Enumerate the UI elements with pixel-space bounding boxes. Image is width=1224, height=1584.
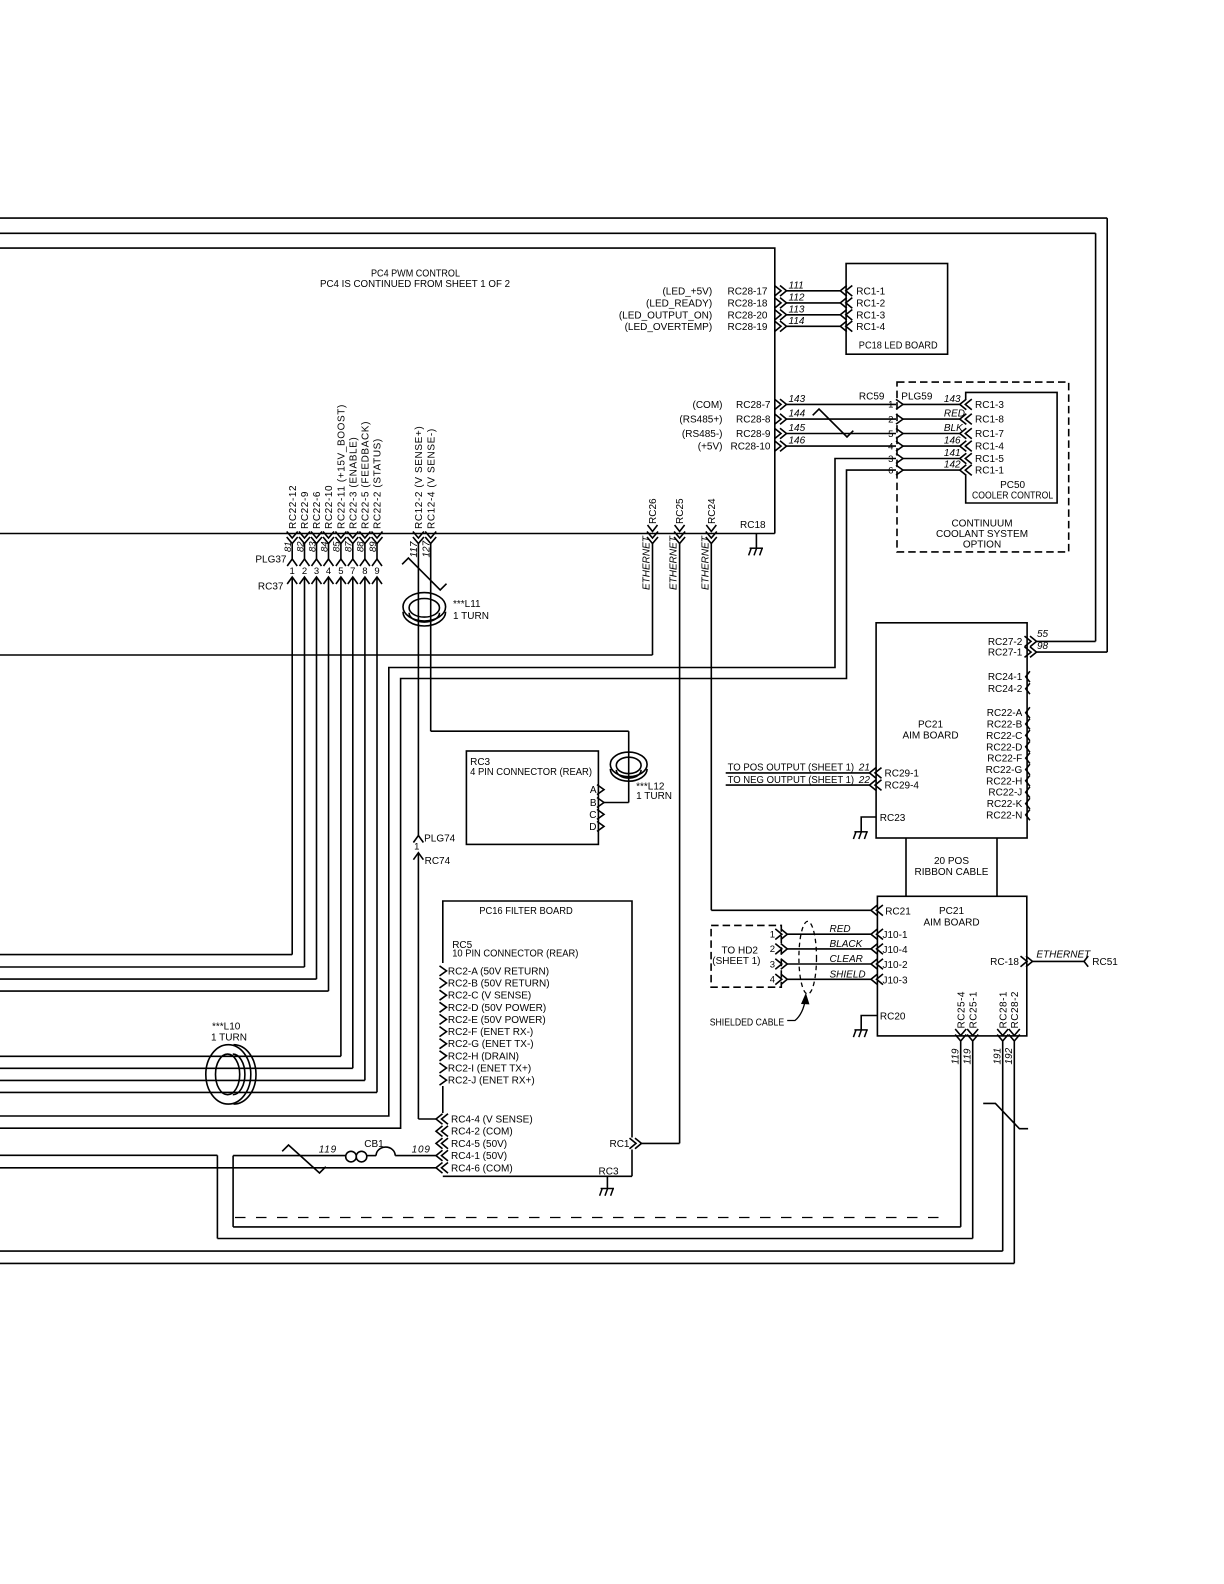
svg-text:RC22-10: RC22-10: [324, 485, 335, 529]
RC3 connector box: [466, 751, 598, 844]
wire 117 to RC4-4: [418, 1118, 436, 1120]
svg-text:B: B: [590, 798, 597, 809]
PC4 PWM control box: [0, 248, 775, 533]
svg-text:CLEAR: CLEAR: [830, 954, 863, 965]
connector pin RC28-20 chevron: [780, 310, 787, 321]
svg-text:146: 146: [789, 436, 806, 447]
wire PLG37 pin 5 vertical: [340, 544, 342, 560]
svg-text:22: 22: [858, 775, 871, 786]
RC37 pin 3 caret: [312, 577, 322, 584]
svg-text:RC59: RC59: [859, 391, 885, 402]
svg-text:SHIELDED CABLE: SHIELDED CABLE: [710, 1017, 785, 1028]
svg-text:109: 109: [412, 1144, 431, 1155]
svg-text:20 POS: 20 POS: [934, 856, 969, 867]
wire CLEAR: [787, 963, 871, 965]
RC2 pin RC2-A (50V RETURN): [440, 966, 447, 976]
wire 145: [787, 433, 897, 435]
wire PLG37 pin 9 vertical: [376, 544, 378, 560]
PC16 box bottom edge: [443, 1175, 632, 1177]
RC2 pin RC2-J (ENET RX+): [440, 1075, 447, 1085]
svg-text:RC22-5 (FEEDBACK): RC22-5 (FEEDBACK): [361, 421, 372, 529]
svg-text:RC1-4: RC1-4: [975, 442, 1004, 453]
wire 127 vertical: [430, 544, 432, 732]
svg-text:RC28-9: RC28-9: [736, 429, 771, 440]
wire to neg output: [726, 784, 870, 786]
svg-text:PC18 LED BOARD: PC18 LED BOARD: [859, 340, 938, 351]
wire RC28-2 vertical: [1013, 1041, 1015, 1263]
wire PLG37 pin 7 vertical: [352, 544, 354, 560]
connector pin RC28-9 chevron: [780, 428, 787, 439]
wire net 55 right vertical: [1095, 233, 1097, 641]
svg-text:119: 119: [319, 1144, 337, 1155]
wire PLG59 pin 3 to RC1-5: [903, 458, 960, 460]
shielded cable arrow: [787, 999, 805, 1021]
wire ETHERNET RC51: [1033, 960, 1085, 962]
svg-text:1: 1: [414, 842, 419, 853]
inductor L12: [610, 752, 647, 777]
svg-text:(LED_READY): (LED_READY): [646, 298, 712, 309]
RC74 caret: [413, 853, 423, 860]
pin RC28-1 chevron: [997, 1035, 1008, 1042]
RC23 ground wire: [861, 817, 876, 832]
svg-text:21: 21: [858, 763, 870, 774]
RC2 pin RC2-D (50V POWER): [440, 1002, 447, 1012]
pin RC29-4 chevron: [870, 780, 877, 791]
wire 119 left segment: [0, 1154, 217, 1156]
RC1 pin chevron: [635, 1138, 642, 1149]
wire PLG59 pin 2 to RC1-8: [903, 418, 960, 420]
wire PLG37 pin 1 vertical: [291, 544, 293, 560]
wire 191 horizontal: [0, 1250, 1003, 1252]
RC4 pin RC4-2 (COM): [436, 1126, 443, 1137]
svg-text:RC22-N: RC22-N: [986, 810, 1022, 821]
svg-text:4 PIN CONNECTOR (REAR): 4 PIN CONNECTOR (REAR): [470, 767, 592, 778]
pin RC26 chevron: [648, 525, 658, 532]
wire RC24 to RC21: [711, 909, 871, 911]
svg-text:RC4-1 (50V): RC4-1 (50V): [451, 1151, 507, 1162]
RC2 pin RC2-I (ENET TX+): [440, 1063, 447, 1073]
wire RC25-1 vertical: [972, 1041, 974, 1239]
svg-text:RC1-1: RC1-1: [975, 466, 1004, 477]
pin RC29-1 chevron: [870, 768, 877, 779]
RC37 pin 1 caret: [287, 577, 297, 584]
svg-text:141: 141: [944, 448, 961, 459]
svg-text:RC2-C (V SENSE): RC2-C (V SENSE): [448, 991, 531, 1002]
wire PLG59 pin 1 to RC1-3: [903, 403, 960, 405]
svg-text:RC22-H: RC22-H: [986, 776, 1022, 787]
svg-text:RC22-9: RC22-9: [300, 491, 311, 529]
PLG59 pin 5 chevron: [896, 429, 903, 439]
svg-text:4: 4: [888, 441, 893, 452]
PLG37 pin 1 caret: [287, 559, 297, 566]
svg-text:AIM BOARD: AIM BOARD: [902, 731, 958, 742]
ground RC18: [750, 547, 763, 549]
svg-text:55: 55: [1037, 629, 1049, 640]
pin RC21 chevron: [871, 905, 878, 916]
svg-text:98: 98: [1037, 641, 1049, 652]
svg-text:RED: RED: [830, 924, 851, 935]
svg-text:RC1-1: RC1-1: [856, 286, 885, 297]
svg-text:(COM): (COM): [693, 400, 723, 411]
svg-text:1 TURN: 1 TURN: [211, 1033, 247, 1044]
wire 192 horizontal: [0, 1262, 1014, 1264]
svg-text:4: 4: [326, 566, 331, 577]
svg-text:145: 145: [789, 423, 806, 434]
svg-text:A: A: [590, 785, 597, 796]
svg-text:1 TURN: 1 TURN: [636, 791, 672, 802]
PLG74 caret: [413, 836, 423, 843]
pin J10-1 chevron: [871, 929, 878, 940]
pin J10-3 chevron: [871, 974, 878, 985]
svg-text:RC28-1: RC28-1: [998, 991, 1009, 1028]
wire RC25 vertical: [679, 544, 681, 1144]
PLG37 pin 8 caret: [360, 559, 370, 566]
svg-text:RC22-J: RC22-J: [988, 788, 1022, 799]
ground RC23: [854, 831, 867, 833]
svg-text:ETHERNET: ETHERNET: [669, 535, 680, 590]
svg-text:OPTION: OPTION: [963, 539, 1001, 550]
RC37 pin 5 caret: [336, 577, 346, 584]
svg-text:5: 5: [338, 566, 343, 577]
wire RC25 to RC1: [640, 1142, 680, 1144]
circuit breaker CB1: [346, 1151, 357, 1162]
svg-text:RC37: RC37: [258, 582, 284, 593]
svg-text:BLACK: BLACK: [830, 939, 864, 950]
RC37 pin 4 caret: [324, 577, 334, 584]
svg-text:J10-3: J10-3: [883, 975, 908, 986]
wire PLG37 pin 4 horizontal: [0, 990, 329, 992]
wire PLG37 pin 7 horizontal: [0, 1067, 353, 1069]
RC2 pin RC2-F (ENET RX-): [440, 1027, 447, 1037]
svg-text:RC22-6: RC22-6: [312, 491, 323, 529]
svg-text:RC1: RC1: [609, 1139, 629, 1150]
PC4 pin RC22-3 (ENABLE) chevron: [347, 537, 358, 544]
PC16 filter board box: [443, 901, 632, 1138]
pin RC24 chevron: [706, 525, 716, 532]
svg-text:ETHERNET: ETHERNET: [642, 535, 653, 590]
svg-text:114: 114: [789, 316, 805, 327]
pin RC-18 chevron: [1026, 956, 1033, 967]
connector pin RC1-3 chevron: [840, 310, 847, 321]
wire PLG59 pin 5 to RC1-7: [903, 433, 960, 435]
wire PLG37 pin 3 horizontal: [0, 978, 317, 980]
svg-text:RC1-4: RC1-4: [856, 322, 885, 333]
wire PLG59 pin 6 net: [0, 470, 896, 1128]
svg-text:RC25: RC25: [675, 498, 686, 524]
connector pin RC28-18 chevron: [780, 298, 787, 309]
pin RC28-2 chevron: [1009, 1035, 1020, 1042]
RC4 pin RC4-4 (V SENSE): [436, 1114, 443, 1125]
wire 109 CB1 to RC4-1: [395, 1155, 436, 1157]
svg-text:1: 1: [290, 566, 295, 577]
PC4 pin RC12-2 chevron: [413, 537, 424, 544]
pin RC27-2 chevron: [1030, 636, 1037, 647]
connector pin RC1-4 chevron: [840, 321, 847, 332]
AIM board 2 box: [877, 896, 1026, 1036]
connector pin RC28-8 chevron: [780, 414, 787, 425]
svg-text:PC16 FILTER BOARD: PC16 FILTER BOARD: [479, 906, 573, 917]
svg-text:RC2-I (ENET TX+): RC2-I (ENET TX+): [448, 1064, 531, 1075]
svg-text:3: 3: [314, 566, 319, 577]
svg-text:ETHERNET: ETHERNET: [1036, 950, 1091, 961]
RC2 pin RC2-C (V SENSE): [440, 990, 447, 1000]
svg-text:1 TURN: 1 TURN: [453, 611, 489, 622]
svg-text:2: 2: [770, 944, 775, 955]
svg-text:RC20: RC20: [880, 1012, 906, 1023]
wire 119 CB1 lower horizontal: [233, 1226, 961, 1228]
svg-text:D: D: [589, 822, 596, 833]
svg-text:RC25-4: RC25-4: [956, 991, 967, 1028]
svg-text:RC1-8: RC1-8: [975, 415, 1004, 426]
svg-text:1: 1: [888, 400, 893, 411]
svg-text:RC26: RC26: [648, 498, 659, 524]
PC4 pin RC22-9 chevron: [299, 537, 310, 544]
PC4 pin RC22-12 chevron: [287, 537, 298, 544]
svg-text:RC2-G (ENET TX-): RC2-G (ENET TX-): [448, 1039, 534, 1050]
svg-text:RC2-F (ENET RX-): RC2-F (ENET RX-): [448, 1027, 533, 1038]
svg-text:RC28-7: RC28-7: [736, 400, 771, 411]
inductor L10: [206, 1045, 251, 1104]
PC4 pin RC22-10 chevron: [323, 537, 334, 544]
RC4 pin RC4-6 (COM): [436, 1163, 443, 1174]
svg-text:RC1-3: RC1-3: [856, 310, 885, 321]
svg-text:PC4 PWM CONTROL: PC4 PWM CONTROL: [371, 269, 460, 280]
wire 112: [787, 302, 841, 304]
RC2 pin RC2-H (DRAIN): [440, 1051, 447, 1061]
RC20 ground wire: [861, 1016, 877, 1030]
pin RC27-1 chevron: [1030, 647, 1037, 658]
svg-text:119: 119: [951, 1048, 962, 1064]
svg-text:143: 143: [944, 394, 961, 405]
ground RC3: [601, 1188, 614, 1190]
svg-text:RC28-2: RC28-2: [1010, 991, 1021, 1028]
cable slash 117/127: [402, 558, 446, 590]
svg-text:10 PIN CONNECTOR (REAR): 10 PIN CONNECTOR (REAR): [452, 949, 578, 960]
connector pin RC28-10 chevron: [780, 441, 787, 452]
wire 117 vertical upper: [417, 544, 419, 836]
wire 146: [787, 445, 897, 447]
svg-text:RC2-J (ENET RX+): RC2-J (ENET RX+): [448, 1076, 535, 1087]
svg-text:PC21: PC21: [939, 906, 964, 917]
svg-text:RC22-K: RC22-K: [987, 799, 1023, 810]
svg-text:111: 111: [789, 280, 804, 291]
svg-text:(SHEET 1): (SHEET 1): [712, 956, 760, 967]
svg-text:113: 113: [789, 304, 805, 315]
connector pin RC1-2 chevron: [840, 298, 847, 309]
svg-text:RC74: RC74: [425, 856, 451, 867]
RC4 pin RC4-1 (50V): [436, 1150, 443, 1161]
wire RC26 vertical: [652, 544, 654, 656]
svg-text:ETHERNET: ETHERNET: [700, 535, 711, 590]
svg-text:3: 3: [770, 959, 775, 970]
svg-text:RC2-B (50V RETURN): RC2-B (50V RETURN): [448, 979, 550, 990]
connector pin RC1-1 chevron: [960, 465, 967, 476]
svg-text:7: 7: [350, 566, 355, 577]
svg-text:4: 4: [770, 975, 775, 986]
svg-text:(RS485+): (RS485+): [679, 415, 722, 426]
PC50 cooler control box: [966, 392, 1057, 503]
pin RC25 chevron: [675, 525, 685, 532]
wire BLACK: [787, 948, 871, 950]
svg-text:RC24-1: RC24-1: [988, 672, 1023, 683]
RC37 pin 7 caret: [348, 577, 358, 584]
svg-text:RC25-1: RC25-1: [968, 991, 979, 1028]
wire PLG37 pin 4 vertical: [328, 544, 330, 560]
svg-text:144: 144: [789, 409, 806, 420]
PLG59 pin 4 chevron: [896, 441, 903, 451]
wire PLG37 pin 8 vertical: [364, 544, 366, 560]
PC18 LED board box: [846, 264, 948, 355]
svg-text:RC22-12: RC22-12: [288, 485, 299, 529]
wire 119 left vertical: [216, 1155, 218, 1238]
svg-text:8: 8: [362, 566, 367, 577]
svg-text:RC1-3: RC1-3: [975, 400, 1004, 411]
RC3 ground stub: [606, 1176, 608, 1188]
svg-text:RC1-7: RC1-7: [975, 429, 1004, 440]
cable slash 191/192: [983, 1103, 1028, 1128]
wire net 98 right vertical: [1106, 218, 1108, 652]
svg-text:RC28-20: RC28-20: [727, 310, 767, 321]
wire RC25-4 vertical: [960, 1041, 962, 1227]
RC37 pin 2 caret: [300, 577, 310, 584]
connector pin RC1-8 chevron: [960, 414, 967, 425]
connector pin RC1-3 chevron: [960, 399, 967, 410]
svg-text:RC2-E (50V POWER): RC2-E (50V POWER): [448, 1015, 546, 1026]
shield ellipse: [799, 921, 817, 994]
RC37 pin 8 caret: [360, 577, 370, 584]
svg-text:J10-4: J10-4: [883, 945, 908, 956]
wire PLG37 pin 2 vertical: [304, 544, 306, 560]
svg-text:RC24: RC24: [707, 498, 718, 524]
svg-text:SHIELD: SHIELD: [830, 969, 866, 980]
svg-text:CB1: CB1: [364, 1139, 384, 1150]
svg-text:(LED_+5V): (LED_+5V): [662, 286, 712, 297]
wire PLG59 pin 3 net: [0, 459, 896, 1117]
svg-text:C: C: [589, 810, 596, 821]
PLG59 pin 6 chevron: [896, 465, 903, 475]
PC4 pin RC12-4 chevron: [425, 537, 436, 544]
svg-text:RIBBON CABLE: RIBBON CABLE: [915, 867, 989, 878]
svg-text:RC2-A (50V RETURN): RC2-A (50V RETURN): [448, 966, 549, 977]
wire PLG59 pin 6 to RC1-1: [903, 469, 960, 471]
svg-text:RC22-A: RC22-A: [987, 708, 1023, 719]
wire 119 lower horizontal: [217, 1238, 972, 1240]
svg-text:J10-2: J10-2: [883, 960, 908, 971]
PLG59 pin 3 chevron: [896, 454, 903, 464]
wire to pos output: [726, 772, 870, 774]
svg-text:***L11: ***L11: [453, 599, 481, 610]
svg-text:191: 191: [993, 1048, 1004, 1065]
svg-text:RC22-2 (STATUS): RC22-2 (STATUS): [373, 438, 384, 529]
svg-text:(RS485-): (RS485-): [682, 429, 723, 440]
svg-text:146: 146: [944, 436, 961, 447]
continuum coolant dashed box: [897, 382, 1069, 552]
pin J10-2 chevron: [871, 959, 878, 970]
svg-text:RC22-11 (+15V_BOOST): RC22-11 (+15V_BOOST): [337, 404, 348, 529]
svg-text:PC4 IS CONTINUED FROM SHEET 1: PC4 IS CONTINUED FROM SHEET 1 OF 2: [320, 279, 510, 290]
svg-text:RC18: RC18: [740, 520, 766, 531]
pin J10-4 chevron: [871, 944, 878, 955]
cable slash RS485 pair: [813, 409, 854, 437]
svg-text:RC24-2: RC24-2: [988, 684, 1023, 695]
svg-text:PLG37: PLG37: [255, 555, 287, 566]
svg-text:RC27-2: RC27-2: [988, 637, 1023, 648]
svg-text:RC2-H (DRAIN): RC2-H (DRAIN): [448, 1051, 519, 1062]
svg-text:RC12-4 (V SENSE-): RC12-4 (V SENSE-): [426, 428, 437, 529]
PC4 pin RC22-6 chevron: [311, 537, 322, 544]
RC2 pin RC2-G (ENET TX-): [440, 1039, 447, 1049]
svg-text:RC28-19: RC28-19: [727, 322, 767, 333]
wire 144: [787, 418, 897, 420]
svg-text:RC4-4 (V SENSE): RC4-4 (V SENSE): [451, 1115, 533, 1126]
svg-text:RC29-4: RC29-4: [885, 781, 920, 792]
svg-text:RC3: RC3: [599, 1167, 619, 1178]
svg-text:RC22-C: RC22-C: [986, 731, 1022, 742]
RC2 pin RC2-E (50V POWER): [440, 1014, 447, 1024]
svg-text:RC-18: RC-18: [990, 957, 1019, 968]
wire 127 down to L12: [628, 731, 630, 802]
wire PLG59 pin 4 to RC1-4: [903, 445, 960, 447]
wire PLG37 pin 5 horizontal: [0, 1055, 341, 1057]
wire 117 vertical lower: [417, 853, 419, 1119]
svg-text:RC27-1: RC27-1: [988, 648, 1023, 659]
wire PLG37 pin 9 horizontal: [0, 1091, 377, 1093]
wire RC4-6 COM: [0, 1167, 436, 1169]
wire 98: [1037, 651, 1108, 653]
wire 111: [787, 290, 841, 292]
connector pin RC1-1 chevron: [840, 286, 847, 297]
svg-text:112: 112: [789, 292, 805, 303]
PLG37 pin 3 caret: [312, 559, 322, 566]
svg-text:RC2-D (50V POWER): RC2-D (50V POWER): [448, 1003, 546, 1014]
PC4 pin RC22-5 (FEEDBACK) chevron: [359, 537, 370, 544]
svg-text:COOLER CONTROL: COOLER CONTROL: [972, 490, 1053, 501]
wire 119 CB1 vertical: [232, 1156, 234, 1227]
svg-text:(LED_OUTPUT_ON): (LED_OUTPUT_ON): [619, 310, 712, 321]
PLG37 pin 7 caret: [348, 559, 358, 566]
cable slash 119 bundle: [282, 1145, 326, 1173]
svg-text:143: 143: [789, 394, 806, 405]
shield dashed wire: [235, 1217, 947, 1219]
svg-text:9: 9: [374, 566, 379, 577]
connector pin RC1-4 chevron: [960, 441, 967, 452]
PC16 left edge segment: [442, 1086, 444, 1113]
wire 114: [787, 325, 841, 327]
svg-text:TO POS OUTPUT (SHEET 1): TO POS OUTPUT (SHEET 1): [728, 763, 855, 774]
TO HD2 dashed box: [711, 925, 781, 987]
svg-text:2: 2: [888, 414, 893, 425]
svg-text:RC22-3 (ENABLE): RC22-3 (ENABLE): [348, 437, 359, 529]
wire 113: [787, 314, 841, 316]
wire RED: [787, 933, 871, 935]
svg-text:RC28-18: RC28-18: [727, 298, 767, 309]
svg-text:RC1-2: RC1-2: [856, 298, 885, 309]
wire 55: [1037, 640, 1096, 642]
RC2 pin RC2-B (50V RETURN): [440, 978, 447, 988]
svg-text:RC28-8: RC28-8: [736, 415, 771, 426]
svg-text:142: 142: [944, 460, 961, 471]
PLG59 pin 1 chevron: [896, 399, 903, 409]
svg-text:PLG74: PLG74: [424, 834, 456, 845]
wire net 98 top run: [0, 217, 1107, 219]
svg-text:PC21: PC21: [918, 720, 943, 731]
connector pin RC1-7 chevron: [960, 428, 967, 439]
connector pin RC28-19 chevron: [780, 321, 787, 332]
svg-text:5: 5: [888, 429, 893, 440]
RC4 pin RC4-5 (50V): [436, 1138, 443, 1149]
wire PLG37 pin 1 horizontal: [0, 954, 292, 956]
svg-text:RC22-B: RC22-B: [987, 720, 1023, 731]
